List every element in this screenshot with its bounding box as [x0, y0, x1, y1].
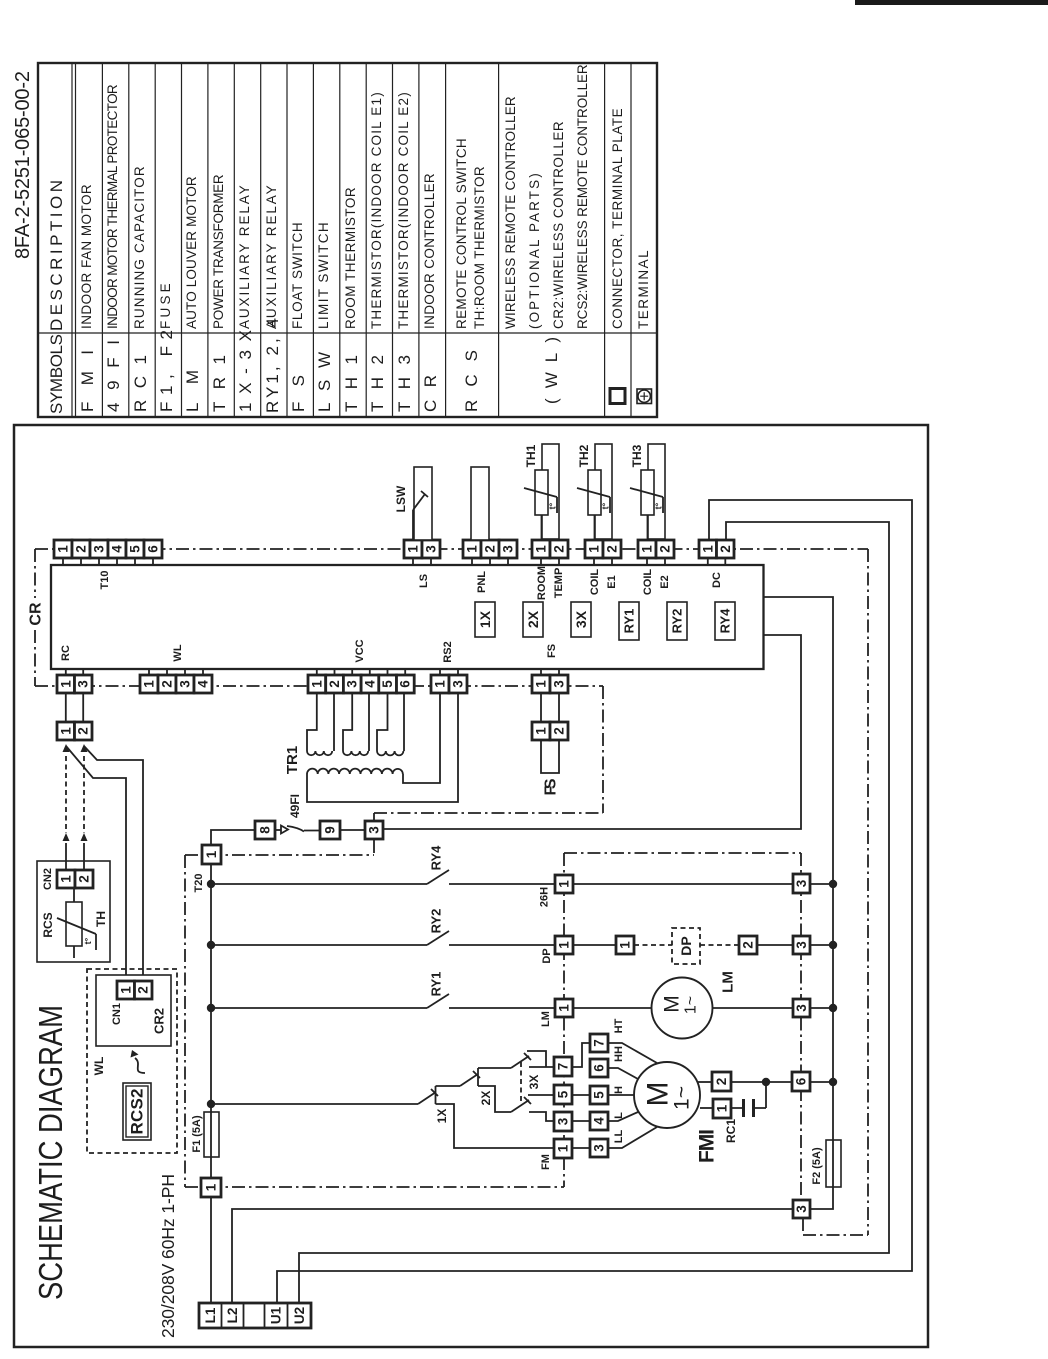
svg-text:2: 2	[136, 986, 151, 994]
mechanical link 3X dashed	[520, 1062, 522, 1104]
svg-text:1: 1	[534, 545, 549, 553]
svg-text:3: 3	[592, 1144, 607, 1152]
svg-text:3: 3	[92, 545, 107, 553]
svg-text:49FI: 49FI	[288, 794, 302, 818]
wire HH to motor	[608, 1068, 638, 1079]
wire LSW pin1	[412, 510, 414, 540]
boxed label RY2	[667, 602, 687, 640]
svg-text:4: 4	[362, 680, 377, 688]
svg-text:TH: TH	[94, 911, 108, 927]
CR boundary dash-dot top	[35, 548, 868, 550]
svg-text:LM: LM	[720, 971, 737, 993]
svg-text:FMI: FMI	[696, 1129, 719, 1163]
svg-text:2: 2	[74, 545, 89, 553]
table header double line	[72, 63, 76, 417]
limit switch LSW body	[414, 467, 432, 540]
wire LL to motor	[608, 1127, 657, 1148]
connector DC	[699, 540, 734, 565]
wire 1X row feed	[211, 1103, 418, 1105]
svg-text:TERMINAL: TERMINAL	[636, 250, 651, 329]
svg-text:t°: t°	[601, 502, 611, 509]
parts table frame	[38, 63, 657, 417]
svg-text:DC: DC	[711, 572, 723, 588]
svg-text:3: 3	[501, 545, 516, 553]
svg-text:AUTO LOUVER MOTOR: AUTO LOUVER MOTOR	[184, 176, 199, 329]
svg-text:M: M	[661, 995, 684, 1013]
drain pump DP dashed box	[672, 928, 700, 964]
arrowhead squiggle	[131, 1050, 139, 1058]
svg-text:5: 5	[380, 680, 395, 688]
svg-text:6: 6	[398, 680, 413, 688]
switch blade LSW	[413, 491, 428, 510]
svg-text:REMOTE CONTROL SWITCH: REMOTE CONTROL SWITCH	[454, 138, 469, 329]
svg-text:3: 3	[794, 1205, 809, 1213]
wireless signal squiggle	[135, 1058, 145, 1073]
svg-text:CN1: CN1	[111, 1003, 123, 1025]
wire FMI to box 2	[697, 1081, 712, 1083]
svg-text:1: 1	[640, 545, 655, 553]
svg-text:RC1: RC1	[724, 1119, 738, 1143]
svg-text:L2: L2	[225, 1308, 240, 1324]
connector PNL	[463, 540, 517, 558]
terminal box 3 right col L2	[793, 1200, 810, 1218]
svg-text:SCHEMATIC DIAGRAM: SCHEMATIC DIAGRAM	[32, 1005, 69, 1300]
svg-text:VCC: VCC	[354, 639, 366, 662]
wires RC to plug	[66, 693, 83, 722]
svg-text:H: H	[613, 1086, 625, 1094]
wire RY4 row	[211, 883, 833, 885]
svg-text:8FA-2-5251-065-00-2: 8FA-2-5251-065-00-2	[12, 71, 34, 259]
WL optional dashed enclosure	[87, 969, 177, 1153]
svg-text:TH3: TH3	[630, 444, 644, 467]
junction node right 3 RY2	[829, 941, 837, 949]
svg-text:RCS: RCS	[462, 350, 481, 412]
svg-text:CR: CR	[28, 602, 45, 626]
svg-text:INDOOR FAN MOTOR: INDOOR FAN MOTOR	[79, 184, 94, 329]
svg-text:2X: 2X	[525, 610, 541, 628]
svg-text:1X: 1X	[435, 1109, 449, 1124]
terminal box 3 (49FI row)	[365, 821, 383, 839]
svg-text:RS2: RS2	[442, 641, 454, 662]
svg-text:HT: HT	[613, 1018, 625, 1033]
wire RC plug to CN1 pin2	[84, 746, 143, 981]
svg-text:26H: 26H	[539, 887, 551, 907]
transformer TR1 secondary wires	[307, 693, 404, 751]
top-right black bar	[855, 0, 1048, 5]
wire 2X branch down	[478, 1086, 511, 1112]
arrowhead CN2 wire 1	[63, 833, 70, 841]
svg-text:2: 2	[327, 680, 342, 688]
svg-text:RY2: RY2	[429, 909, 444, 934]
svg-text:INDOOR CONTROLLER: INDOOR CONTROLLER	[422, 173, 437, 329]
connector box 1 LM row	[555, 999, 573, 1017]
wire FMI to box 1	[700, 1107, 713, 1109]
connector column FM pins 7-5-3-1	[554, 1057, 572, 1158]
svg-text:2: 2	[718, 545, 733, 553]
svg-text:1: 1	[58, 680, 73, 688]
svg-text:RCS2:WIRELESS REMOTE CONTROLLE: RCS2:WIRELESS REMOTE CONTROLLER	[575, 64, 590, 329]
boxed label 1X	[475, 602, 495, 637]
svg-text:1: 1	[309, 680, 324, 688]
svg-text:L1: L1	[203, 1307, 218, 1323]
svg-text:RY4: RY4	[718, 608, 733, 634]
svg-text:RC: RC	[60, 645, 72, 661]
connector chain dash-dot right column	[564, 853, 801, 1218]
svg-text:1: 1	[465, 545, 480, 553]
schematic border frame	[14, 425, 928, 1347]
relay contact RY2	[427, 931, 449, 945]
svg-text:FM: FM	[540, 1154, 552, 1170]
svg-text:CR2: CR2	[152, 1008, 167, 1034]
svg-text:WL: WL	[92, 1057, 106, 1076]
svg-text:F2 (5A): F2 (5A)	[811, 1147, 823, 1185]
wire box2 to junction	[731, 1082, 766, 1108]
svg-text:RCS: RCS	[41, 912, 55, 937]
svg-text:3: 3	[556, 1117, 571, 1125]
connector FS plug 1-2	[532, 722, 568, 740]
connector box 1 DP row	[555, 936, 573, 954]
svg-text:t°: t°	[83, 937, 93, 944]
svg-text:2: 2	[483, 545, 498, 553]
svg-text:1: 1	[557, 941, 572, 949]
svg-text:INDOOR MOTOR THERMAL PROTECTOR: INDOOR MOTOR THERMAL PROTECTOR	[105, 84, 120, 329]
svg-text:CN2: CN2	[42, 868, 54, 890]
terminal box 3 right col RY4	[793, 874, 810, 893]
thermistor TH in RCS	[73, 888, 75, 958]
terminal box 6 (right col)	[792, 1072, 810, 1091]
svg-text:THERMISTOR(INDOOR COIL E1): THERMISTOR(INDOOR COIL E1)	[369, 92, 384, 329]
table row connector symbol	[610, 389, 625, 404]
connector CN2	[57, 870, 93, 888]
wire to FM pin3	[529, 1112, 554, 1121]
svg-text:1: 1	[557, 880, 572, 888]
svg-text:7: 7	[556, 1063, 571, 1071]
svg-text:4: 4	[592, 1117, 607, 1125]
WL boundary dash-dot bottom	[185, 1157, 564, 1187]
svg-text:ROOM: ROOM	[536, 566, 548, 600]
connector VCC	[308, 669, 414, 693]
motor terminal column 7-6-5-4-3	[590, 1034, 608, 1157]
svg-text:T10: T10	[99, 571, 111, 590]
svg-text:1: 1	[56, 545, 71, 553]
svg-text:COIL: COIL	[642, 569, 654, 596]
fan motor FMI circle	[634, 1062, 700, 1128]
svg-text:RC1: RC1	[131, 355, 150, 412]
svg-text:6: 6	[146, 545, 161, 553]
svg-text:4: 4	[196, 680, 211, 688]
svg-text:2: 2	[741, 941, 756, 949]
terminal box 3 right col RY2	[793, 936, 810, 954]
wire stubs LS	[413, 558, 431, 565]
connector RS2	[431, 669, 467, 693]
svg-text:3X: 3X	[527, 1075, 541, 1090]
svg-text:CONNECTOR, TERMINAL PLATE: CONNECTOR, TERMINAL PLATE	[610, 108, 625, 329]
svg-text:1: 1	[406, 545, 421, 553]
svg-text:AUXILIARY RELAY: AUXILIARY RELAY	[237, 185, 252, 329]
svg-text:3: 3	[794, 941, 809, 949]
svg-text:U1: U1	[269, 1306, 284, 1324]
svg-text:COIL: COIL	[589, 569, 601, 596]
remote control switch RCS box	[37, 861, 110, 962]
panel PNL body	[471, 467, 489, 540]
svg-text:U2: U2	[292, 1307, 307, 1324]
WL boundary dash-dot left vertical	[184, 855, 186, 1187]
svg-text:3: 3	[424, 545, 439, 553]
terminal box 1 DP mid	[616, 936, 634, 954]
wire to FM pin7	[529, 1066, 554, 1068]
svg-text:1~: 1~	[671, 1086, 694, 1110]
thermal protector 49FI symbol	[281, 826, 320, 834]
wire DP dashed	[634, 944, 739, 946]
svg-text:2: 2	[552, 545, 567, 553]
wire stubs T10	[63, 558, 153, 565]
svg-text:1: 1	[618, 941, 633, 949]
svg-text:(OPTIONAL PARTS): (OPTIONAL PARTS)	[527, 173, 542, 329]
svg-text:LS: LS	[418, 574, 430, 588]
transformer TR1 primary coil	[307, 769, 403, 774]
svg-text:F1 (5A): F1 (5A)	[191, 1115, 203, 1153]
svg-text:RCS2: RCS2	[128, 1089, 147, 1135]
svg-text:1: 1	[534, 727, 549, 735]
svg-text:PNL: PNL	[476, 571, 488, 593]
junction node right 3 RY4	[829, 880, 837, 888]
wire FM pin1 feed	[436, 1104, 555, 1148]
table row terminal symbol	[637, 389, 652, 404]
boxed label RY4	[715, 602, 735, 640]
svg-text:t°: t°	[654, 502, 664, 509]
svg-text:SYMBOLS: SYMBOLS	[47, 334, 66, 414]
svg-text:t°: t°	[548, 502, 558, 509]
svg-text:RY1: RY1	[429, 972, 444, 997]
svg-text:6: 6	[794, 1077, 809, 1085]
wire L1 rail	[211, 830, 255, 1303]
connector T20 box 1	[202, 845, 221, 864]
relay contact RY4	[427, 870, 449, 884]
terminal box 9	[320, 821, 340, 839]
connector FS	[532, 669, 568, 693]
svg-text:TH3: TH3	[395, 355, 414, 412]
float switch FS loop	[541, 740, 559, 773]
wire H to motor	[608, 1094, 634, 1096]
wireless controller CR2 box	[96, 975, 171, 1046]
arrowhead RC plug 1	[63, 744, 70, 752]
wireless remote RCS2 box	[123, 1083, 151, 1140]
svg-text:1: 1	[556, 1144, 571, 1152]
terminal box 3 right col RY1	[793, 999, 810, 1017]
svg-text:2: 2	[76, 727, 91, 735]
wire 2X to 3X	[478, 1067, 511, 1069]
louver motor LM circle	[652, 978, 713, 1039]
wire RY1 row	[211, 1007, 833, 1009]
svg-text:230/208V 60Hz 1-PH: 230/208V 60Hz 1-PH	[158, 1174, 178, 1338]
svg-text:TH2: TH2	[577, 444, 591, 467]
transformer TR1 primary wires	[307, 693, 458, 802]
connector WL	[140, 669, 212, 693]
wire CR right to junction column	[764, 597, 834, 1209]
svg-text:HH: HH	[613, 1046, 625, 1062]
svg-text:TR1: TR1	[210, 355, 229, 412]
boxed label 2X	[523, 602, 543, 637]
svg-text:1: 1	[534, 680, 549, 688]
svg-text:3: 3	[451, 680, 466, 688]
junction node right 3 RY1	[829, 1004, 837, 1012]
svg-text:ROOM THERMISTOR: ROOM THERMISTOR	[343, 187, 358, 329]
svg-text:TH:ROOM THERMISTOR: TH:ROOM THERMISTOR	[472, 166, 487, 329]
thermistor TH2 group	[577, 444, 621, 565]
boxed label 3X	[571, 602, 591, 637]
svg-text:3: 3	[367, 826, 382, 834]
svg-text:RY2: RY2	[670, 609, 685, 634]
relay contact 1X	[418, 1086, 438, 1104]
CR boundary dash-dot bottom row	[35, 685, 603, 687]
svg-text:POWER TRANSFORMER: POWER TRANSFORMER	[211, 174, 226, 329]
optional boundary dash-dot right vertical	[867, 549, 869, 1235]
svg-text:T20: T20	[193, 874, 205, 893]
wire DC2 to U2	[299, 522, 889, 1303]
connector RC	[57, 669, 92, 693]
svg-text:TR1: TR1	[284, 746, 301, 774]
svg-text:5: 5	[128, 545, 143, 553]
svg-text:3: 3	[76, 680, 91, 688]
svg-text:THERMISTOR(INDOOR COIL E2): THERMISTOR(INDOOR COIL E2)	[396, 92, 411, 329]
dashed arrows CN2 to RC plug	[66, 756, 84, 833]
terminal box 1 (RC1 row)	[713, 1099, 731, 1118]
svg-text:LSW: LSW	[315, 352, 334, 412]
indoor controller CR box	[51, 565, 764, 669]
junction node right 6	[829, 1078, 837, 1086]
wire stubs PNL	[472, 558, 508, 565]
svg-text:1: 1	[204, 850, 219, 858]
junction node 1X row	[207, 1100, 215, 1108]
wire 1X to 2X	[436, 1085, 461, 1087]
connector CN1	[117, 981, 152, 999]
relay contact 2X	[460, 1068, 480, 1086]
svg-text:LSW: LSW	[394, 485, 408, 512]
svg-text:1: 1	[118, 986, 133, 994]
svg-text:FS: FS	[546, 644, 558, 658]
49FI-T20 boundary dash-dot	[185, 840, 374, 856]
wire to FM pin5	[528, 1094, 554, 1096]
svg-text:2: 2	[552, 727, 567, 735]
wire DC1 to U1	[277, 500, 912, 1303]
table row divider lines	[102, 63, 631, 417]
relay contact RY1	[427, 994, 449, 1008]
svg-text:E1: E1	[606, 575, 618, 588]
svg-text:3: 3	[178, 680, 193, 688]
connector RC plug 1-2	[57, 722, 92, 740]
svg-text:1: 1	[587, 545, 602, 553]
svg-text:3: 3	[794, 1004, 809, 1012]
terminal box 8	[255, 821, 275, 839]
svg-text:WL: WL	[172, 644, 184, 661]
svg-text:AUXILIARY RELAY: AUXILIARY RELAY	[264, 185, 279, 329]
terminal strip L1 L2 U1 U2	[199, 1303, 311, 1328]
FS boundary dash-dot	[374, 686, 603, 823]
svg-text:6: 6	[592, 1064, 607, 1072]
svg-text:CR2:WIRELESS CONTROLLER: CR2:WIRELESS CONTROLLER	[551, 121, 566, 329]
junction node RC1	[762, 1078, 770, 1086]
table column divider SYMBOLS/DESCRIPTION	[38, 332, 657, 334]
fuse F1	[204, 1112, 219, 1157]
relay contact 3X lower	[511, 1097, 531, 1112]
arrowhead RC plug 2	[81, 744, 88, 752]
svg-text:LL: LL	[613, 1130, 625, 1144]
connector T10	[54, 540, 162, 558]
svg-text:TH1: TH1	[342, 355, 361, 412]
svg-text:3: 3	[345, 680, 360, 688]
terminal box 2 (RC1 row)	[712, 1072, 731, 1091]
junction node RY2 row	[207, 941, 215, 949]
svg-text:WIRELESS REMOTE CONTROLLER: WIRELESS REMOTE CONTROLLER	[503, 96, 518, 329]
wire RC plug to CN1 pin1	[66, 746, 126, 981]
wires FS to plug	[541, 693, 559, 722]
terminal box 2 DP row	[739, 936, 757, 954]
svg-text:3: 3	[794, 879, 809, 887]
svg-text:RY1: RY1	[622, 609, 637, 634]
3X upper fixed contact	[527, 1051, 546, 1067]
svg-text:1: 1	[204, 1183, 219, 1191]
optional boundary dash-dot bottom right corner	[803, 1218, 868, 1235]
svg-text:DP: DP	[541, 948, 553, 963]
svg-text:1: 1	[142, 680, 157, 688]
svg-text:2: 2	[714, 1078, 729, 1086]
transformer TR1 secondary coils	[307, 751, 332, 755]
svg-text:TH1: TH1	[524, 444, 538, 467]
svg-text:RY4: RY4	[429, 845, 444, 871]
svg-text:TEMP: TEMP	[553, 568, 565, 599]
connector chain dash-dot 26H column	[563, 853, 565, 1157]
connector box 1 (L1 row)	[201, 1178, 221, 1197]
connector box 1 26H row	[555, 875, 573, 893]
wire junction to box 6	[766, 1081, 833, 1083]
svg-text:LM: LM	[540, 1011, 552, 1027]
svg-text:FLOAT SWITCH: FLOAT SWITCH	[290, 222, 305, 329]
svg-text:1: 1	[433, 680, 448, 688]
svg-text:2X: 2X	[479, 1091, 493, 1106]
svg-text:4: 4	[110, 545, 125, 553]
svg-text:DP: DP	[678, 936, 694, 955]
svg-text:1X: 1X	[477, 610, 493, 628]
wire RY2 row	[211, 944, 833, 946]
junction node RY1 row	[207, 1004, 215, 1012]
arrowhead CN2 wire 2	[81, 833, 88, 841]
svg-text:FS: FS	[543, 778, 560, 795]
fuse F2	[826, 1140, 841, 1187]
junction node T20	[207, 880, 215, 888]
svg-text:1~: 1~	[683, 996, 700, 1014]
svg-text:9: 9	[323, 826, 338, 834]
svg-text:5: 5	[592, 1091, 607, 1099]
svg-text:8: 8	[258, 826, 273, 834]
CR boundary dash-dot left	[34, 549, 36, 686]
svg-text:3X: 3X	[573, 610, 589, 628]
svg-text:1: 1	[715, 1104, 730, 1112]
wire L to motor	[608, 1112, 638, 1121]
relay contact 3X upper	[511, 1053, 531, 1068]
svg-text:1: 1	[59, 875, 74, 883]
svg-text:7: 7	[592, 1039, 607, 1047]
wires CN2 solid with arrowheads	[66, 843, 84, 870]
svg-text:TH2: TH2	[368, 355, 387, 412]
wire 9 to 3	[340, 829, 365, 831]
svg-text:2: 2	[605, 545, 620, 553]
svg-text:1: 1	[700, 545, 715, 553]
svg-text:3: 3	[552, 680, 567, 688]
connector LS	[404, 540, 440, 558]
svg-text:E2: E2	[659, 575, 671, 588]
wires FM column links	[572, 1043, 590, 1148]
thermistor TH3 group	[630, 444, 674, 565]
